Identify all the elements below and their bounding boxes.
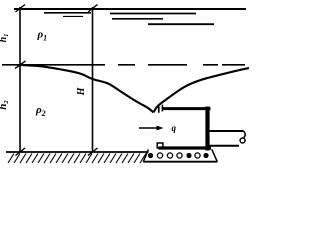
dimension vertical line H bbox=[92, 7, 94, 153]
initial groundwater table solid line bbox=[2, 64, 105, 66]
gravel stone 2 bbox=[157, 153, 162, 158]
outlet pipe top line bbox=[210, 130, 244, 132]
inflow arrow shaft bbox=[139, 127, 158, 129]
water surface mark left shorter line bbox=[63, 15, 83, 17]
water surface mark right line 3 bbox=[148, 23, 214, 25]
upper water surface line bbox=[14, 8, 246, 10]
gravel tray right slant bbox=[212, 149, 218, 162]
tick at water table on line h1 bbox=[15, 61, 26, 69]
water surface mark right line 1 bbox=[110, 13, 196, 15]
dimension vertical line h1-h2 bbox=[19, 7, 21, 153]
tick at top of line h1 bbox=[16, 5, 26, 13]
outlet pipe bottom line bbox=[210, 145, 240, 147]
outlet pipe end drop circle bbox=[240, 138, 245, 143]
gravel tray bottom line bbox=[143, 161, 217, 163]
svg-text:H: H bbox=[76, 86, 87, 96]
tick at ground on line h1 bbox=[16, 148, 26, 156]
gallery right wall bbox=[205, 107, 209, 151]
initial groundwater table dash-dot line bbox=[118, 64, 246, 66]
gravel stone 4 bbox=[177, 153, 182, 158]
svg-text:q: q bbox=[172, 123, 177, 133]
tick at ground on line H bbox=[88, 148, 98, 156]
gravel tray left slant bbox=[143, 150, 148, 162]
water surface mark right line 2 bbox=[112, 18, 163, 20]
ground hatching bbox=[8, 154, 146, 164]
gravel stone 7 bbox=[203, 153, 208, 158]
gravel stone 6 bbox=[195, 153, 200, 158]
gallery roof bbox=[163, 107, 211, 110]
gallery left bottom stub bbox=[157, 143, 163, 148]
depression curve left branch bbox=[20, 65, 154, 112]
gallery floor bbox=[159, 146, 212, 149]
ground line bbox=[6, 151, 149, 153]
depression curve right branch bbox=[154, 68, 250, 112]
gravel stone 1 bbox=[148, 153, 153, 158]
water surface mark left short line bbox=[44, 12, 91, 14]
gravel stone 3 bbox=[167, 153, 172, 158]
gravel stone 5 bbox=[186, 153, 191, 158]
inflow arrow head bbox=[157, 126, 164, 131]
tick at top of line H bbox=[88, 5, 98, 13]
gallery inlet notch bbox=[158, 106, 160, 113]
outlet pipe end curl bbox=[242, 131, 245, 138]
